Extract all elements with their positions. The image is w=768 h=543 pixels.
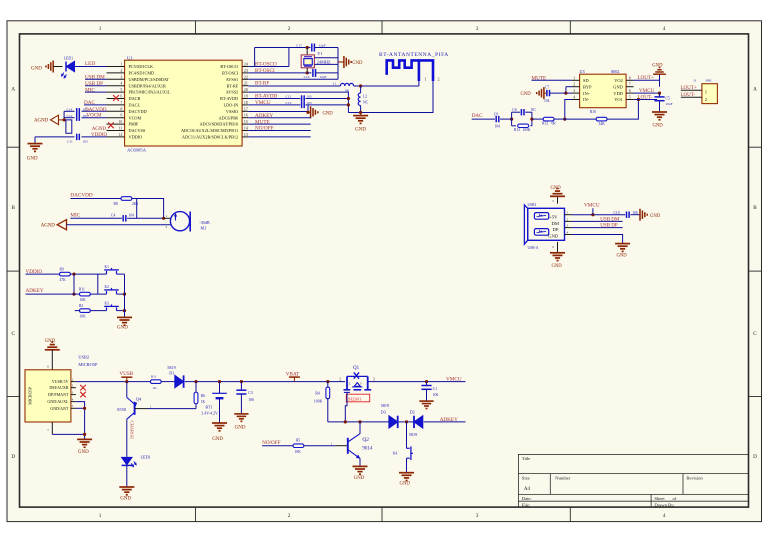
svg-text:USB DP: USB DP bbox=[600, 224, 618, 229]
svg-text:GND: GND bbox=[521, 92, 532, 97]
wire CHARGE net label bbox=[126, 419, 128, 457]
svg-text:AGND: AGND bbox=[41, 224, 56, 229]
svg-text:Drawn By:: Drawn By: bbox=[654, 502, 674, 507]
svg-text:DACR: DACR bbox=[129, 96, 141, 101]
USB3 pin 4 bbox=[564, 234, 572, 236]
svg-text:ADKEY: ADKEY bbox=[440, 417, 458, 423]
no-connect X on U1 pin 10 bbox=[108, 122, 114, 128]
wire VO1 LOUT- / net label bbox=[634, 99, 657, 101]
net label ADKEY pin16 / wire bbox=[248, 117, 310, 119]
svg-text:GND: GND bbox=[352, 61, 363, 66]
svg-text:R13: R13 bbox=[514, 128, 520, 132]
net label MIC / wire bbox=[85, 91, 107, 93]
svg-text:BT-OSCO: BT-OSCO bbox=[255, 61, 277, 67]
svg-text:USBDP/PA4/AUX1R: USBDP/PA4/AUX1R bbox=[129, 83, 167, 88]
power port GND at USB3 pin4 bbox=[615, 243, 630, 245]
svg-text:R9: R9 bbox=[60, 268, 64, 272]
svg-text:J1: J1 bbox=[693, 78, 696, 82]
svg-text:Q1: Q1 bbox=[353, 366, 360, 371]
svg-text:MICRO5P: MICRO5P bbox=[28, 386, 33, 404]
svg-text:C7: C7 bbox=[545, 85, 549, 89]
connector USB1 USB-A body bbox=[528, 208, 565, 240]
U1 pin 8 DACVDD bbox=[107, 110, 125, 112]
svg-text:DP/FMANT: DP/FMANT bbox=[48, 392, 69, 397]
svg-text:6: 6 bbox=[120, 95, 122, 99]
capacitor C12 on VCOM pin 9 bbox=[64, 117, 74, 119]
svg-text:GND/AUXL: GND/AUXL bbox=[47, 399, 69, 404]
wire R11 to VDDIO row bbox=[97, 274, 99, 294]
wire LED1 to GND bbox=[126, 465, 128, 486]
svg-text:8550: 8550 bbox=[117, 407, 127, 412]
svg-text:100K: 100K bbox=[314, 399, 323, 403]
net label BT-RF / wire to L1 bbox=[248, 85, 340, 87]
svg-text:B: B bbox=[11, 205, 15, 211]
svg-text:GND: GND bbox=[650, 214, 661, 219]
svg-text:VMCU: VMCU bbox=[584, 202, 600, 208]
svg-text:MICRO5P: MICRO5P bbox=[78, 362, 98, 367]
svg-text:GND: GND bbox=[117, 325, 128, 330]
svg-text:21: 21 bbox=[244, 82, 248, 86]
svg-text:1: 1 bbox=[567, 211, 569, 215]
svg-text:LED1: LED1 bbox=[64, 56, 73, 60]
svg-text:106: 106 bbox=[632, 211, 638, 215]
net label DACVDD / wire bbox=[70, 198, 120, 200]
svg-text:4: 4 bbox=[567, 230, 569, 234]
U3 pin 5 VO1 bbox=[626, 99, 634, 101]
svg-text:5: 5 bbox=[120, 88, 122, 92]
U1 pin 17 VSSIO bbox=[242, 110, 248, 112]
node R6 tap bbox=[194, 380, 197, 383]
USB3 pin 1 bbox=[564, 214, 572, 216]
svg-text:D: D bbox=[11, 454, 15, 460]
svg-text:4: 4 bbox=[663, 26, 666, 32]
svg-text:12pF: 12pF bbox=[319, 75, 326, 79]
svg-text:GND: GND bbox=[235, 425, 246, 430]
USB2 pin 4 GND/AUXL bbox=[71, 401, 76, 403]
svg-text:SD: SD bbox=[583, 78, 589, 83]
wire keys common vertical bbox=[124, 274, 126, 317]
node IN+ junction bbox=[564, 92, 567, 95]
svg-text:VOCM: VOCM bbox=[87, 114, 103, 119]
svg-text:USB2: USB2 bbox=[78, 354, 89, 359]
U1 pin 15 ADC9/SD6DAT/PB10 bbox=[242, 123, 248, 125]
wire antenna pin2 down to ground rail bbox=[348, 81, 433, 113]
wire pin13 stub bbox=[248, 136, 310, 138]
resistor R5 10K bbox=[293, 444, 304, 448]
node C15 ground bbox=[347, 97, 350, 100]
svg-text:22: 22 bbox=[244, 75, 248, 79]
svg-text:D3: D3 bbox=[381, 409, 386, 414]
svg-text:Revision: Revision bbox=[686, 476, 703, 481]
svg-text:3.4V-4.2V: 3.4V-4.2V bbox=[201, 411, 218, 416]
svg-text:5819: 5819 bbox=[381, 403, 389, 408]
net label USB DP / wire bbox=[85, 85, 107, 87]
svg-text:File:: File: bbox=[522, 502, 530, 507]
U3 pin 6 VDD bbox=[626, 92, 634, 94]
svg-text:2: 2 bbox=[120, 69, 122, 73]
node gate junction bbox=[344, 420, 347, 423]
capacitor C7 104 bbox=[550, 92, 566, 94]
svg-text:BYP: BYP bbox=[583, 84, 592, 89]
wire BT-OSCI net / capacitor C16 bbox=[248, 72, 307, 74]
power port AGND (mic) bbox=[57, 220, 66, 230]
svg-text:VBAT: VBAT bbox=[286, 371, 300, 377]
node VO1 feedback junction bbox=[637, 98, 640, 101]
svg-text:Q2: Q2 bbox=[362, 437, 369, 443]
svg-text:L2: L2 bbox=[363, 95, 367, 99]
svg-text:R6: R6 bbox=[201, 394, 205, 398]
svg-text:1: 1 bbox=[99, 513, 102, 519]
svg-text:24MHZ: 24MHZ bbox=[317, 60, 331, 65]
capacitor C10 106 bbox=[626, 212, 628, 218]
svg-text:DACVDD: DACVDD bbox=[70, 193, 92, 199]
svg-text:VO2: VO2 bbox=[614, 78, 623, 83]
svg-text:106: 106 bbox=[433, 393, 439, 397]
capacitor C3 bbox=[240, 382, 242, 391]
battery BT1 3.4V-4.2V bbox=[219, 382, 221, 394]
svg-text:GND: GND bbox=[212, 437, 223, 442]
net label NO/OFF / wire bbox=[262, 445, 293, 447]
USB2 pin 5 GND/ANT bbox=[71, 407, 76, 409]
svg-text:BT1: BT1 bbox=[205, 405, 212, 410]
resistor R8 2K2 bbox=[121, 197, 132, 201]
power port GND below C1 bbox=[419, 400, 433, 402]
no-connect X on USB2 pin2 bbox=[80, 385, 86, 391]
svg-text:104: 104 bbox=[129, 213, 135, 217]
U1 pin 7 DACL bbox=[107, 104, 125, 106]
wire Q1 gate down bbox=[345, 392, 347, 422]
svg-text:Sheet: Sheet bbox=[654, 496, 665, 501]
power port VUSB bbox=[125, 380, 128, 383]
power port GND below LED1 bbox=[119, 486, 134, 488]
svg-text:8002: 8002 bbox=[611, 69, 619, 74]
wire Q1 drain out bbox=[368, 381, 466, 383]
svg-text:BT-AVDD: BT-AVDD bbox=[255, 94, 277, 100]
transistor Q2 9014 bbox=[335, 445, 348, 447]
net label SI2301 highlighted bbox=[346, 394, 369, 402]
svg-text:USB1: USB1 bbox=[528, 203, 537, 207]
svg-text:12: 12 bbox=[118, 133, 122, 137]
wire antenna pin1 down bbox=[418, 81, 420, 86]
U1 pin 23 BT-OSCI bbox=[242, 72, 248, 74]
op-amp U3 8002 body bbox=[580, 74, 627, 108]
svg-text:BT-OSCI: BT-OSCI bbox=[222, 71, 239, 76]
node R4 tap bbox=[326, 380, 329, 383]
svg-text:GND/ANT: GND/ANT bbox=[50, 406, 69, 411]
svg-text:DAC: DAC bbox=[84, 100, 95, 106]
U3 pin 7 GND bbox=[626, 86, 634, 88]
svg-text:2: 2 bbox=[288, 513, 291, 519]
svg-text:C14: C14 bbox=[67, 107, 73, 111]
svg-text:15: 15 bbox=[244, 120, 248, 124]
svg-text:R3: R3 bbox=[79, 304, 83, 308]
svg-text:6: 6 bbox=[629, 89, 631, 93]
svg-text:A4: A4 bbox=[524, 487, 530, 492]
svg-text:10uF: 10uF bbox=[666, 102, 673, 106]
wire VDDIO pin 12 / capacitor C11 bbox=[35, 136, 75, 138]
svg-text:2K2: 2K2 bbox=[132, 202, 138, 206]
svg-text:1K: 1K bbox=[201, 400, 206, 404]
power port GND bottom-left of U1 bbox=[28, 143, 43, 145]
net label ADKEY / wire bbox=[26, 293, 80, 295]
wire GND to LED1 bbox=[53, 66, 62, 68]
svg-text:104: 104 bbox=[544, 99, 550, 103]
wire D2 to ADKEY label bbox=[424, 421, 466, 423]
svg-text:GND: GND bbox=[552, 264, 563, 269]
svg-text:10: 10 bbox=[118, 120, 122, 124]
node Q2 collector junction bbox=[358, 420, 361, 423]
svg-text:GND: GND bbox=[31, 66, 42, 71]
svg-text:R8: R8 bbox=[114, 202, 118, 206]
svg-text:2: 2 bbox=[438, 77, 440, 82]
wire DP / net label USB DP bbox=[572, 227, 623, 229]
svg-text:VMCU: VMCU bbox=[255, 100, 271, 106]
svg-text:NC: NC bbox=[363, 100, 369, 104]
diode D3 5819 bbox=[389, 416, 398, 428]
node K4 junction bbox=[405, 420, 408, 423]
resistor R4 100K bbox=[327, 382, 329, 388]
svg-text:100K: 100K bbox=[523, 128, 531, 132]
U1 pin 20 AVSS2 bbox=[242, 91, 248, 93]
resistor R3 10K bbox=[80, 309, 91, 313]
svg-text:BT-RF: BT-RF bbox=[255, 80, 269, 86]
svg-text:ADC10/AUX2L/SD0CMD/PB11: ADC10/AUX2L/SD0CMD/PB11 bbox=[181, 128, 238, 133]
wire D1 cathode rail to Q1 bbox=[185, 381, 345, 383]
svg-text:23: 23 bbox=[244, 69, 248, 73]
svg-text:13: 13 bbox=[244, 133, 248, 137]
svg-text:9: 9 bbox=[120, 114, 122, 118]
wire ADKEY row bbox=[328, 421, 389, 423]
svg-text:of: of bbox=[673, 496, 677, 501]
svg-text:16: 16 bbox=[244, 114, 248, 118]
svg-text:DP: DP bbox=[553, 227, 559, 232]
svg-text:C13: C13 bbox=[285, 101, 291, 105]
svg-text:C5: C5 bbox=[666, 97, 670, 101]
svg-text:105: 105 bbox=[83, 139, 89, 143]
title block bbox=[518, 454, 748, 507]
svg-text:0R: 0R bbox=[552, 122, 557, 126]
svg-text:PB15/MIC/PA3/AUX1L: PB15/MIC/PA3/AUX1L bbox=[129, 90, 172, 95]
wire USB2 pin4 pin5 to ground bbox=[76, 402, 85, 440]
net label DAC / wire / capacitor C9 104 bbox=[472, 118, 495, 120]
svg-text:K4: K4 bbox=[393, 452, 398, 456]
U1 pin 12 VDDIO bbox=[107, 136, 125, 138]
svg-text:PMIF: PMIF bbox=[129, 122, 140, 127]
svg-text:NC: NC bbox=[531, 108, 537, 112]
svg-text:USB DP: USB DP bbox=[85, 81, 103, 87]
svg-text:USB-A: USB-A bbox=[528, 246, 539, 250]
power port GND at C7 bbox=[544, 92, 546, 94]
net label VDDIO / wire bbox=[26, 273, 60, 275]
svg-text:IN+: IN+ bbox=[583, 91, 591, 96]
svg-text:BT-RF: BT-RF bbox=[227, 83, 239, 88]
svg-text:GND: GND bbox=[653, 123, 664, 128]
wire AVSS1 to ground bbox=[248, 78, 338, 80]
node VDDIO/ADKEY divider bbox=[72, 273, 75, 276]
svg-text:B: B bbox=[753, 205, 757, 211]
U1 pin 10 PMIF bbox=[107, 123, 125, 125]
switch K2 bbox=[106, 291, 108, 294]
svg-text:5819: 5819 bbox=[167, 365, 175, 370]
wire AGND vertical bbox=[63, 111, 65, 120]
svg-text:C10: C10 bbox=[614, 211, 620, 215]
svg-text:Y1: Y1 bbox=[317, 51, 322, 56]
wire R8 to mic pin1 bbox=[132, 199, 164, 219]
svg-text:K1: K1 bbox=[105, 265, 110, 269]
U1 pin 3 USBDM/PC3/SD0DAT bbox=[107, 78, 125, 80]
power port GND below K4 bbox=[399, 472, 414, 474]
svg-text:GND: GND bbox=[613, 84, 623, 89]
svg-text:ADC6/PB6: ADC6/PB6 bbox=[219, 115, 239, 120]
USB2 shield pin top bbox=[51, 350, 53, 370]
wire BT-OSCO net with loop bbox=[248, 66, 289, 68]
svg-text:GND: GND bbox=[355, 128, 366, 133]
net label USB DM / wire bbox=[85, 78, 107, 80]
power port VBAT bbox=[293, 377, 295, 381]
power port GND below antenna rail bbox=[360, 113, 362, 116]
connector USB2 MICRO5P body bbox=[25, 370, 71, 422]
svg-text:1: 1 bbox=[120, 63, 122, 67]
svg-text:LOUT+: LOUT+ bbox=[638, 75, 655, 81]
svg-text:GND: GND bbox=[354, 476, 365, 481]
capacitor C6 NC parallel branch bbox=[511, 112, 513, 126]
svg-text:10K: 10K bbox=[80, 314, 87, 318]
svg-text:LOUT-: LOUT- bbox=[638, 94, 653, 100]
svg-text:Date:: Date: bbox=[522, 496, 532, 501]
net label DAC / wire bbox=[84, 104, 107, 106]
svg-text:2: 2 bbox=[567, 217, 569, 221]
microphone M1 bbox=[164, 217, 171, 219]
svg-text:14: 14 bbox=[244, 127, 248, 131]
USB2 pin 3 DP/FMANT bbox=[71, 394, 76, 396]
U1 pin 11 DACVSS bbox=[107, 130, 125, 132]
U3 pin 8 VO2 bbox=[626, 79, 634, 81]
svg-text:VO1: VO1 bbox=[614, 97, 623, 102]
svg-text:DACVDD: DACVDD bbox=[129, 109, 147, 114]
svg-text:Number: Number bbox=[555, 476, 571, 481]
USB3 pin 3 bbox=[564, 227, 572, 229]
svg-text:GND: GND bbox=[617, 253, 628, 258]
wire VDD pin VMCU / net label bbox=[634, 92, 660, 94]
net label MUTE / wire to U3 bbox=[532, 79, 573, 81]
svg-text:VUSB 5V: VUSB 5V bbox=[52, 379, 69, 384]
svg-text:GND: GND bbox=[27, 156, 38, 161]
svg-text:BT-AVDD: BT-AVDD bbox=[220, 96, 238, 101]
resistor R11 10K bbox=[80, 292, 91, 296]
svg-text:ADC11/AUX2R/SD0CLK/PB12: ADC11/AUX2R/SD0CLK/PB12 bbox=[182, 135, 238, 140]
wire loop below AGND node bbox=[66, 120, 72, 133]
power port GND at crystal bbox=[338, 61, 344, 63]
svg-text:5819: 5819 bbox=[409, 432, 417, 437]
svg-text:1K: 1K bbox=[153, 386, 158, 390]
svg-text:DACVSS: DACVSS bbox=[129, 128, 146, 133]
svg-text:4: 4 bbox=[573, 96, 575, 100]
svg-text:VUSB: VUSB bbox=[119, 371, 133, 377]
svg-text:USB DM: USB DM bbox=[600, 217, 620, 222]
diode D1 5819 bbox=[175, 375, 184, 387]
no-connect X on U1 pin 6 bbox=[113, 95, 119, 101]
wire VSSIO pin 17 bbox=[248, 111, 308, 113]
svg-text:3: 3 bbox=[373, 377, 375, 381]
wire third key row bbox=[75, 310, 80, 312]
svg-text:20: 20 bbox=[244, 88, 248, 92]
svg-text:10K: 10K bbox=[80, 298, 87, 302]
svg-text:GND: GND bbox=[400, 481, 411, 486]
svg-text:K2: K2 bbox=[105, 285, 110, 289]
svg-text:BT-ANTANTENNA_PIFA: BT-ANTANTENNA_PIFA bbox=[379, 52, 448, 58]
U1 pin 6 DACR bbox=[107, 98, 125, 100]
svg-text:A: A bbox=[753, 87, 757, 93]
svg-text:BT-OSCO: BT-OSCO bbox=[220, 64, 238, 69]
wire crystal right stubs bbox=[314, 57, 338, 59]
USB2 pin 1 VUSB 5V bbox=[71, 381, 76, 383]
svg-text:34K: 34K bbox=[599, 122, 606, 126]
power port GND above USB3 bbox=[550, 195, 565, 197]
U1 pin 5 PB15/MIC/PA3/AUX1L bbox=[107, 91, 125, 93]
svg-text:IN-: IN- bbox=[583, 97, 590, 102]
svg-text:ADC9/SD6DAT/PB10: ADC9/SD6DAT/PB10 bbox=[199, 122, 238, 127]
svg-text:AGND: AGND bbox=[92, 127, 107, 132]
svg-text:LDO-IN: LDO-IN bbox=[224, 103, 239, 108]
USB3 shield pin bottom bbox=[557, 242, 559, 253]
svg-text:3: 3 bbox=[573, 89, 575, 93]
resistor R13 100K parallel branch bbox=[512, 125, 516, 127]
capacitor C17 bbox=[311, 44, 313, 52]
USB3 pin 2 bbox=[564, 220, 572, 222]
U1 pin 2 PC4/SD1CMD bbox=[107, 72, 125, 74]
svg-text:5: 5 bbox=[629, 96, 631, 100]
svg-text:NO/OFF: NO/OFF bbox=[255, 126, 274, 132]
wire VO2 LOUT+ / net label bbox=[634, 79, 660, 81]
wire LOUT+ to SPK pin1 / net label bbox=[681, 89, 702, 91]
node battery tap bbox=[218, 380, 221, 383]
power port GND above U3 bbox=[653, 73, 666, 75]
svg-text:C12: C12 bbox=[67, 114, 73, 118]
svg-text:PC5/SD1CLK: PC5/SD1CLK bbox=[129, 64, 154, 69]
wire VUSB rail bbox=[76, 381, 150, 383]
node C13 ground bbox=[347, 103, 350, 106]
svg-text:GND: GND bbox=[323, 112, 334, 117]
svg-text:4: 4 bbox=[120, 82, 122, 86]
svg-text:R4: R4 bbox=[315, 392, 320, 396]
svg-text:C15: C15 bbox=[285, 95, 291, 99]
svg-text:U3: U3 bbox=[580, 69, 585, 74]
svg-text:D: D bbox=[753, 454, 757, 460]
wire Q2 emitter to GND bbox=[359, 458, 361, 466]
svg-text:R11: R11 bbox=[151, 374, 157, 378]
resistor R12 bbox=[532, 118, 543, 120]
power port GND at VSSIO bbox=[308, 111, 310, 113]
transistor Q4 8550 bbox=[126, 382, 128, 398]
svg-text:ADKEY: ADKEY bbox=[26, 288, 44, 294]
svg-text:C1: C1 bbox=[433, 387, 438, 391]
wire L1 to antenna node bbox=[354, 85, 419, 87]
svg-text:-30dB: -30dB bbox=[199, 220, 210, 225]
U1 pin 4 USBDP/PA4/AUX1R bbox=[107, 85, 125, 87]
wire AGND to mic pin2 bbox=[67, 224, 171, 226]
svg-text:PC4/SD1CMD: PC4/SD1CMD bbox=[129, 71, 155, 76]
svg-text:C3: C3 bbox=[248, 391, 253, 395]
svg-text:GND: GND bbox=[551, 186, 562, 191]
svg-text:47K: 47K bbox=[60, 278, 67, 282]
wire +5V to VMCU and C10 bbox=[572, 214, 625, 216]
svg-text:Q4: Q4 bbox=[136, 397, 142, 402]
U1 pin 16 ADC6/PB6 bbox=[242, 117, 248, 119]
wire R5 to Q2 base bbox=[304, 445, 335, 447]
capacitor C15 on BT-AVDD bbox=[248, 98, 300, 100]
svg-text:GND: GND bbox=[120, 497, 131, 502]
resistor R6 1K bbox=[195, 382, 197, 393]
